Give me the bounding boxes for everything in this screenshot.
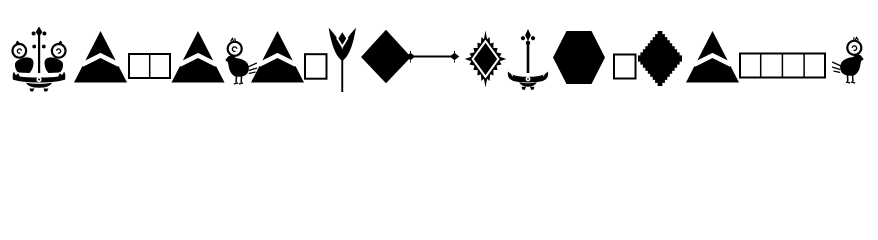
hexagon: [553, 31, 605, 84]
ornament right bird body: [44, 57, 63, 73]
ornament right ring: [52, 44, 66, 58]
four-cell box row: [740, 54, 825, 78]
plant with diamond bud: [330, 30, 355, 92]
ornament base wings: [12, 71, 66, 83]
solid diamond: [361, 30, 411, 83]
triangle T3: [251, 31, 304, 83]
ornament staff: [38, 35, 40, 73]
ornament: two confronted birds flanking staff on winged base: [12, 27, 66, 92]
kilim serrated diamond: [465, 31, 507, 88]
single box B: [614, 55, 636, 79]
ornament left bird body: [15, 57, 34, 73]
ornament bowl: [26, 83, 52, 88]
ornament feet: [30, 89, 35, 92]
triangle T1: [74, 31, 127, 83]
bird B1: [225, 38, 257, 84]
ornament left ring: [12, 44, 26, 58]
lamp / candlestick: [508, 29, 548, 90]
ornament finial: [36, 27, 43, 38]
single box A: [305, 54, 327, 78]
two-cell box row: [129, 54, 170, 78]
divider line with diamond ends: [406, 51, 459, 63]
ornament staff curls: [32, 45, 36, 49]
triangle T4: [686, 31, 739, 83]
triangle T2: [172, 31, 225, 83]
bird B2 (mirrored): [832, 37, 864, 83]
stepped solid diamond: [638, 31, 682, 86]
